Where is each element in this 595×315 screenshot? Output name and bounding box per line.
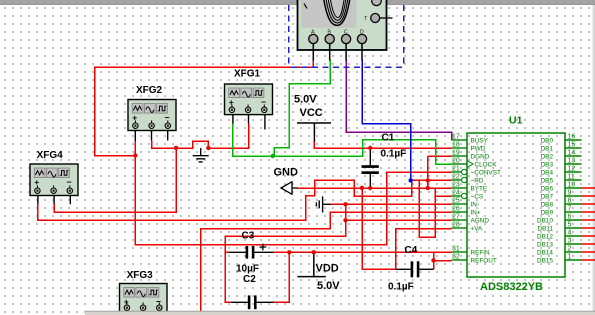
wire red: VCC rail to C1 top and PWD pin 18 — [314, 142, 451, 148]
pin 21 ~CONVST — [452, 166, 501, 177]
pin 25 IN- — [452, 198, 480, 209]
pin 8 DB8 — [541, 198, 582, 209]
svg-text:5: 5 — [568, 222, 572, 229]
pin 24 ~CS — [452, 190, 484, 201]
pin 22 ~RD — [452, 174, 484, 185]
junction GND net at x362 — [360, 186, 364, 190]
wire red data bus DB12 — [582, 235, 595, 237]
svg-text:C3: C3 — [242, 231, 255, 242]
svg-text:−: − — [165, 113, 170, 123]
svg-text:DB14: DB14 — [537, 249, 553, 256]
pin 12 DB4 — [541, 166, 582, 177]
wire red data bus DB15 — [582, 259, 595, 261]
pin 10 DB6 — [541, 182, 582, 193]
svg-text:DB6: DB6 — [541, 185, 554, 192]
ground — [193, 148, 209, 162]
junction REFOUT branch — [431, 258, 435, 262]
svg-text:4: 4 — [568, 230, 572, 237]
junction blue on pin22 line — [409, 178, 413, 182]
svg-text:10: 10 — [568, 182, 576, 189]
svg-text:22: 22 — [452, 174, 460, 181]
pin 3 DB13 — [537, 238, 582, 249]
junction pins 19-22 — [426, 178, 430, 182]
oscilloscope terminals A B C D — [309, 30, 367, 44]
svg-text:DB10: DB10 — [537, 217, 553, 224]
svg-text:10µF: 10µF — [236, 264, 259, 275]
junction dot on XFG2+ lead — [133, 153, 137, 157]
svg-text:CLOCK: CLOCK — [475, 161, 498, 168]
pin 9 DB7 — [541, 190, 582, 201]
svg-text:13: 13 — [568, 158, 576, 165]
wire red: XFG2+ output to ~CONVST pin 21 — [135, 141, 451, 245]
junction C1 bottom — [368, 186, 372, 190]
oscilloscope knob top — [372, 0, 382, 6]
svg-text:5.0V: 5.0V — [317, 280, 340, 292]
junction pins 19-23 — [426, 186, 430, 190]
pin 31 REFIN — [452, 246, 491, 257]
svg-text:ADS8322YB: ADS8322YB — [480, 281, 543, 293]
svg-text:DB9: DB9 — [541, 209, 554, 216]
svg-text:0.1µF: 0.1µF — [388, 282, 414, 293]
pin 27 AGND — [452, 214, 490, 225]
capacitor C1 0.1uF — [362, 133, 407, 189]
svg-text:C1: C1 — [382, 133, 395, 144]
svg-text:−: − — [261, 97, 266, 107]
capacitor C2 — [231, 274, 274, 309]
function generator XFG4 — [30, 150, 78, 196]
wire red: VDD rail C3+ C2 C4 REFIN pin31 REFOUT pin32 — [274, 252, 452, 302]
svg-text:+: + — [132, 113, 137, 123]
svg-text:XFG1: XFG1 — [234, 69, 261, 80]
svg-text:3: 3 — [568, 238, 572, 245]
wire green: scope B and XFG1+ to CLOCK pin 20 — [233, 60, 452, 164]
svg-text:XFG4: XFG4 — [37, 150, 64, 161]
svg-text:18: 18 — [452, 142, 460, 149]
svg-text:XFG2: XFG2 — [136, 85, 163, 96]
wire XFG4 terminal leads — [38, 196, 70, 205]
svg-text:31: 31 — [452, 246, 460, 253]
svg-text:PWD: PWD — [471, 145, 486, 152]
IC U1 ADS8322YB ADC body — [467, 115, 565, 294]
svg-text:IN+: IN+ — [471, 209, 481, 216]
selection box dashed — [289, 5, 404, 67]
wire red: scope A to XFG2+ node — [95, 60, 314, 156]
svg-text:15: 15 — [568, 142, 576, 149]
function generator XFG2 — [128, 85, 176, 131]
wire red data bus DB6 — [582, 187, 595, 189]
svg-text:12: 12 — [568, 166, 576, 173]
pin 5 DB11 — [537, 222, 581, 233]
pin 14 DB2 — [541, 150, 582, 161]
svg-text:14: 14 — [568, 150, 576, 157]
capacitor C4 0.1uF — [388, 245, 434, 293]
svg-text:27: 27 — [452, 214, 460, 221]
pin 19 DGND — [452, 150, 490, 161]
power VCC 5.0V symbol — [297, 123, 331, 142]
svg-text:VCC: VCC — [300, 107, 323, 119]
svg-text:C2: C2 — [243, 274, 256, 285]
wire red data bus DB14 — [582, 251, 595, 253]
pin 7 DB9 — [541, 206, 582, 217]
ground rotated left at IN- — [316, 196, 330, 212]
svg-text:5.0V: 5.0V — [294, 94, 317, 106]
junction IN- line — [343, 202, 347, 206]
pin 23 BYTE — [452, 182, 488, 193]
junction VDD symbol stem — [312, 250, 316, 254]
function generator XFG3 — [120, 270, 168, 313]
wire red data bus DB9 — [582, 211, 595, 213]
svg-text:DB2: DB2 — [541, 153, 554, 160]
pin 20 CLOCK — [452, 158, 498, 169]
svg-text:DB5: DB5 — [541, 177, 554, 184]
svg-text:23: 23 — [452, 182, 460, 189]
svg-text:24: 24 — [452, 190, 460, 197]
pin 17 BUSY — [452, 134, 489, 145]
svg-text:16: 16 — [568, 134, 576, 141]
svg-text:25: 25 — [452, 198, 460, 205]
svg-text:20: 20 — [452, 158, 460, 165]
svg-text:11: 11 — [568, 174, 575, 181]
svg-text:1: 1 — [568, 254, 572, 261]
pin 15 DB1 — [541, 142, 582, 153]
svg-text:XFG3: XFG3 — [127, 270, 154, 281]
svg-text:U1: U1 — [509, 115, 523, 127]
junction AGND line — [343, 218, 347, 222]
svg-text:−: − — [67, 177, 72, 187]
svg-text:~CONVST: ~CONVST — [471, 169, 501, 176]
wire blue: scope D to ~RD net — [362, 60, 411, 180]
wire red data bus DB8 — [582, 203, 595, 205]
node GND flag — [274, 167, 299, 195]
svg-text:DB1: DB1 — [541, 145, 554, 152]
svg-text:DB8: DB8 — [541, 201, 554, 208]
svg-text:C4: C4 — [405, 245, 418, 256]
wire red: analog ground net to IN- pin 25 and AGND pin 27 — [225, 204, 452, 302]
svg-text:DB13: DB13 — [537, 241, 553, 248]
pin 2 DB14 — [537, 246, 582, 257]
oscilloscope XSC1 body — [298, 0, 387, 50]
junction XFG2 mid bus — [174, 146, 178, 150]
svg-text:0.1µF: 0.1µF — [381, 149, 407, 160]
wire purple: scope C to BUSY pin 17 — [346, 60, 452, 140]
svg-text:9: 9 — [568, 190, 572, 197]
svg-text:DB0: DB0 — [541, 137, 554, 144]
pin 1 DB15 — [537, 254, 582, 265]
svg-text:2: 2 — [568, 246, 572, 253]
pin 4 DB12 — [537, 230, 582, 241]
svg-text:AGND: AGND — [471, 217, 490, 224]
junction at ground stub — [206, 146, 210, 150]
svg-text:~CS: ~CS — [471, 193, 484, 200]
svg-text:DB4: DB4 — [541, 169, 554, 176]
svg-text:DB15: DB15 — [537, 257, 553, 264]
svg-text:DB12: DB12 — [537, 233, 553, 240]
wire red data bus DB10 — [582, 219, 595, 221]
pin 6 DB10 — [537, 214, 582, 225]
wire XFG2 terminal leads — [135, 131, 167, 142]
svg-text:~RD: ~RD — [471, 177, 484, 184]
svg-text:DGND: DGND — [471, 153, 490, 160]
wire red data bus DB11 — [582, 227, 595, 229]
wire red: signal to IN+ pin 26 — [201, 212, 452, 313]
pin 18 PWD — [452, 142, 486, 153]
svg-text:26: 26 — [452, 206, 460, 213]
svg-text:19: 19 — [452, 150, 460, 157]
svg-text:17: 17 — [452, 134, 460, 141]
pin 28 +VA — [452, 222, 484, 233]
svg-text:DB3: DB3 — [541, 161, 554, 168]
pin 11 DB5 — [541, 174, 582, 185]
svg-text:IN-: IN- — [471, 201, 480, 208]
svg-text:DB7: DB7 — [541, 193, 554, 200]
power VDD 5.0V symbol — [297, 252, 325, 276]
wire red data bus DB13 — [582, 243, 595, 245]
wire red data bus DB7 — [582, 195, 595, 197]
svg-text:BUSY: BUSY — [471, 137, 489, 144]
wire oscilloscope terminal leads — [313, 44, 362, 61]
svg-text:VDD: VDD — [316, 263, 339, 275]
oscilloscope terminal T — [364, 14, 393, 23]
svg-text:21: 21 — [452, 166, 460, 173]
wire red: digital ground net GND flag to BYTE pin 23 — [38, 156, 452, 269]
pin 16 DB0 — [541, 134, 582, 145]
pin 13 DB3 — [541, 158, 582, 169]
svg-text:REFOUT: REFOUT — [471, 257, 497, 264]
svg-text:32: 32 — [452, 254, 460, 261]
pin 32 REFOUT — [452, 254, 497, 265]
svg-text:+: + — [34, 177, 39, 187]
svg-text:BYTE: BYTE — [471, 185, 488, 192]
wire red: XFG2 mid and XFG1 mid bus with bump — [54, 124, 249, 213]
svg-text:GND: GND — [274, 167, 299, 179]
svg-text:+: + — [229, 97, 234, 107]
junction green XFG1+ line — [271, 154, 275, 158]
svg-text:+VA: +VA — [471, 225, 484, 232]
svg-text:DB11: DB11 — [537, 225, 553, 232]
svg-text:28: 28 — [452, 222, 460, 229]
svg-text:8: 8 — [568, 198, 572, 205]
pin 26 IN+ — [452, 206, 481, 217]
svg-text:6: 6 — [568, 214, 572, 221]
junction C2 branch — [287, 250, 291, 254]
capacitor C3 10uF polarized — [229, 231, 274, 275]
wire XFG1 terminal leads — [233, 115, 265, 130]
function generator XFG1 — [225, 69, 273, 115]
svg-text:7: 7 — [568, 206, 572, 213]
junction C1 top — [368, 146, 372, 150]
svg-text:REFIN: REFIN — [471, 249, 491, 256]
scrollbar bottom — [85, 311, 595, 315]
